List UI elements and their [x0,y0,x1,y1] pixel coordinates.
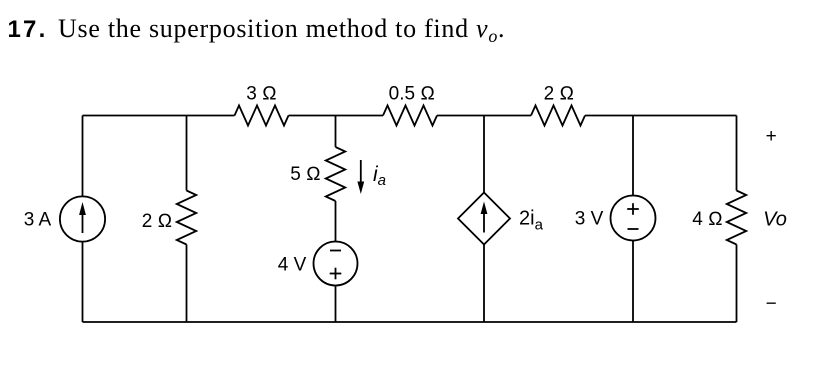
wire dependent source branch upper [483,116,485,193]
wire 4 ohm branch lower [736,245,738,323]
resistor 2 ohm (vertical) [177,191,197,245]
wire 4 V branch lower [335,286,337,323]
resistor 5 ohm (vertical) [326,147,346,201]
resistor 3 ohm (top) [235,106,289,126]
svg-text:−: − [766,294,777,315]
problem title [8,14,506,46]
svg-text:4 Ω: 4 Ω [692,209,722,230]
wire top segment node2-node3 [289,115,384,117]
svg-text:2 Ω: 2 Ω [544,84,574,105]
wire left branch lower [82,242,84,322]
svg-text:0.5 Ω: 0.5 Ω [389,84,435,105]
arrow inside dependent source [481,202,488,233]
svg-text:ia: ia [373,163,386,189]
svg-text:17.: 17. [8,16,48,43]
svg-text:4 V: 4 V [278,255,307,276]
wire 3 V branch upper [632,116,634,196]
voltage source 3 V circle [611,196,656,241]
svg-text:Vo: Vo [763,209,787,231]
wire 5 ohm to 4 V source [335,201,337,242]
svg-text:+: + [766,126,777,147]
svg-text:2ia: 2ia [519,208,544,234]
plus sign inside 3 V source [627,203,639,215]
wire 2 ohm branch lower [186,245,188,323]
wire 4 ohm branch upper [736,116,738,191]
svg-text:2 Ω: 2 Ω [142,211,172,232]
voltage source 4 V circle [314,242,358,286]
minus sign inside 3 V source [628,228,639,230]
wire left branch upper [82,116,84,197]
resistor 0.5 ohm (top) [383,106,437,126]
wire top segment node3-node4 [437,115,531,117]
wire bottom rail [83,321,737,323]
current arrow ia (down) [357,160,364,194]
wire 5 ohm branch upper [335,116,337,148]
svg-text:5 Ω: 5 Ω [290,164,320,185]
dependent current source 2ia diamond [458,193,510,245]
wire 3 V branch lower [632,241,634,323]
wire dependent source branch lower [483,245,485,323]
wire 2 ohm branch upper [186,116,188,191]
minus sign inside 4 V source [330,250,341,252]
svg-text:3 V: 3 V [575,209,604,230]
wire top segment node4-node5 [585,115,737,117]
current source 3 A circle [60,196,105,241]
svg-text:3 A: 3 A [24,210,52,231]
svg-text:Use the superposition method t: Use the superposition method to find vo. [58,14,505,46]
resistor 2 ohm (top) [531,106,585,126]
resistor 4 ohm (vertical) [727,191,747,245]
wire top segment node1-node2 [83,115,235,117]
svg-text:3 Ω: 3 Ω [246,84,276,105]
arrow inside 3 A source [79,202,86,233]
plus sign inside 4 V source [330,268,342,280]
